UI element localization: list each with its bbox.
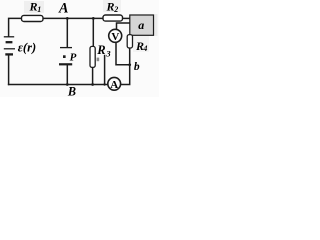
node B label: [67, 85, 76, 99]
wire R1 to node A to R2: [43, 17, 103, 19]
svg-text:ε(r): ε(r): [18, 40, 36, 54]
battery cell short plate 2: [5, 53, 13, 55]
wire voltmeter bottom lead to node b: [116, 42, 130, 65]
voltmeter letter V: [111, 31, 119, 43]
svg-text:a: a: [138, 18, 144, 32]
svg-text:A: A: [58, 1, 68, 17]
ammeter letter A: [110, 79, 118, 91]
battery cell long plate 1: [4, 36, 14, 38]
label P for particle: [70, 52, 77, 64]
svg-text:b: b: [134, 61, 140, 73]
junction R3 bottom: [91, 83, 94, 86]
svg-text:V: V: [111, 31, 119, 43]
resistor R1: [22, 15, 44, 21]
svg-text:A: A: [110, 79, 118, 91]
svg-text:1: 1: [37, 5, 41, 14]
wire bottom rail: [9, 84, 109, 86]
wire R3 branch top: [92, 18, 94, 46]
box a (shaded device): [130, 15, 154, 35]
node A label: [58, 1, 68, 17]
svg-text:3: 3: [105, 48, 111, 58]
capacitor top plate: [60, 47, 72, 49]
svg-text:4: 4: [142, 44, 147, 53]
label epsilon(r) for battery: [18, 40, 36, 54]
junction node b: [128, 63, 131, 66]
wire branch below R3 label down to bottom rail: [104, 56, 106, 85]
label R3: [96, 43, 111, 58]
voltmeter U1 circle: [109, 29, 122, 42]
label R2: [106, 0, 119, 14]
wire R2 to box a: [123, 17, 130, 19]
battery cell short plate 1: [6, 41, 13, 43]
resistor R2: [103, 15, 123, 21]
label R1: [29, 0, 42, 14]
svg-text:R: R: [106, 0, 115, 13]
wire voltmeter top lead to box a: [117, 23, 130, 29]
svg-text:P: P: [70, 52, 77, 64]
svg-text:B: B: [67, 85, 76, 98]
wire top-left corner segment: [9, 18, 22, 36]
battery cell long plate 2: [4, 48, 15, 50]
resistor R4 (vertical): [127, 35, 132, 48]
wire battery bottom to left corner: [8, 55, 10, 85]
svg-text:R: R: [96, 43, 105, 57]
label R4: [135, 39, 147, 53]
junction node A: [66, 17, 69, 20]
wire capacitor bottom plate to node B: [66, 65, 68, 85]
junction node B: [66, 83, 69, 86]
node b label: [134, 61, 140, 73]
svg-text:R: R: [29, 0, 38, 14]
capacitor bottom plate: [59, 63, 72, 65]
particle P dot between plates: [63, 55, 66, 58]
ammeter U2 circle: [108, 77, 121, 90]
stray print mark near R3 box: [97, 58, 100, 62]
svg-text:2: 2: [113, 5, 118, 14]
wire R3 branch bottom: [92, 67, 94, 84]
junction below R3 label at bottom rail: [103, 83, 105, 85]
junction R3 top: [92, 17, 95, 20]
resistor R3 (vertical): [90, 46, 95, 67]
wire node A down to capacitor: [66, 18, 68, 47]
label a in box: [138, 18, 144, 32]
wire R4 down to corner and ammeter: [121, 48, 130, 85]
